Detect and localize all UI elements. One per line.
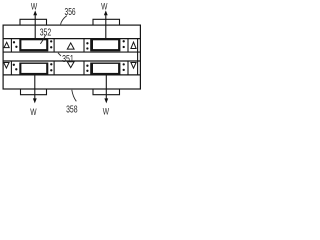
svg-text:W: W <box>30 107 37 118</box>
svg-text:W: W <box>101 2 108 13</box>
svg-text:W: W <box>31 2 38 13</box>
svg-text:356: 356 <box>65 6 76 18</box>
svg-text:352: 352 <box>40 26 52 38</box>
svg-text:351: 351 <box>62 53 74 65</box>
svg-text:W: W <box>103 107 110 118</box>
svg-text:358: 358 <box>66 104 78 116</box>
